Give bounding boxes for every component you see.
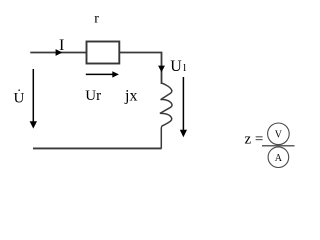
svg-text:Ur: Ur [85,88,101,104]
resistor r box [87,42,120,64]
svg-text:A: A [275,153,283,164]
ammeter circle A [268,147,289,168]
arrowhead current I [56,49,63,56]
svg-text:jx: jx [124,87,137,104]
fraction bar [262,145,295,147]
wire bottom horizontal [33,147,162,149]
svg-text:r: r [94,12,99,27]
inductor coil jx [160,83,172,148]
svg-text:I: I [59,37,64,54]
voltage arrow Ul (right of coil) [182,77,184,131]
wire top-left horizontal with current arrow [30,52,86,54]
voltmeter circle V [268,123,290,145]
wire from resistor to top-right corner and down [119,53,161,85]
voltage arrow U dot (left) [32,69,34,122]
Ur direction arrow [86,73,114,75]
svg-text:z =: z = [245,132,264,148]
svg-text:U̇: U̇ [14,90,25,107]
svg-text:V: V [275,129,283,140]
arrowhead on right vertical wire [158,66,165,73]
svg-text:Ul: Ul [170,58,186,75]
